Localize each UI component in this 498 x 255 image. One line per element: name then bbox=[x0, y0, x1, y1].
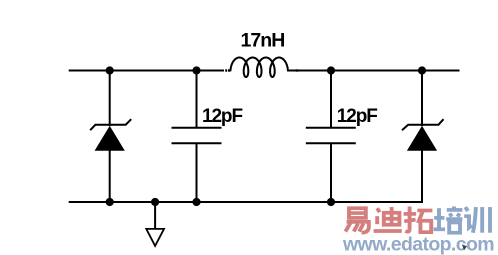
watermark char 培 bbox=[434, 207, 463, 233]
watermark char 训 bbox=[464, 207, 490, 233]
inductor L1 right pin tick bbox=[296, 69, 298, 71]
wire diode D2 upper lead bbox=[421, 71, 423, 127]
wire diode D1 upper lead bbox=[109, 71, 111, 127]
inductor L1 coil bbox=[231, 58, 288, 78]
wire cap C2 upper lead bbox=[330, 71, 332, 128]
capacitor C1 bottom plate bbox=[172, 142, 222, 144]
svg-text:www.edatop.com: www.edatop.com bbox=[342, 234, 494, 255]
inductor L1 left pin tick bbox=[225, 69, 227, 71]
capacitor C2 top plate bbox=[306, 127, 356, 129]
svg-text:12pF: 12pF bbox=[337, 106, 377, 127]
svg-text:12pF: 12pF bbox=[202, 106, 242, 127]
ground arrow symbol bbox=[146, 229, 164, 246]
node dot bottom diode D1 bbox=[106, 198, 114, 206]
capacitor C2 bottom plate bbox=[306, 142, 356, 144]
node dot top cap C2 bbox=[327, 66, 335, 74]
watermark char 迪 bbox=[374, 207, 402, 231]
node dot bottom cap C2 bbox=[327, 198, 335, 206]
node dot bottom cap C1 bbox=[192, 198, 200, 206]
wire cap C2 lower lead bbox=[330, 143, 332, 202]
diode D2 zener cathode bar bbox=[402, 119, 444, 130]
wire diode D2 lower lead bbox=[421, 150, 423, 202]
svg-text:17nH: 17nH bbox=[240, 30, 284, 52]
inductor L1 left pin tick 2 bbox=[228, 69, 230, 71]
watermark cursor arrow bbox=[462, 244, 467, 250]
wire bottom bus bbox=[69, 198, 422, 202]
diode D1 triangle bbox=[95, 126, 125, 151]
wire cap C1 lower lead bbox=[196, 143, 198, 202]
node dot top cap C1 bbox=[192, 66, 200, 74]
wire diode D1 lower lead bbox=[109, 150, 111, 202]
capacitor C1 top plate bbox=[172, 127, 222, 129]
node dot top-left (diode D1 / top bus) bbox=[106, 66, 114, 74]
watermark char 拓 bbox=[404, 207, 433, 233]
wire top bus right segment bbox=[289, 70, 460, 72]
diode D1 zener cathode bar bbox=[90, 119, 131, 130]
ground stub wire bbox=[154, 202, 156, 229]
watermark char 易 bbox=[345, 208, 368, 233]
wire cap C1 upper lead bbox=[196, 71, 198, 128]
wire top bus left segment bbox=[69, 70, 224, 72]
node dot bottom ground bbox=[151, 198, 159, 206]
diode D2 triangle bbox=[407, 126, 437, 151]
node dot top-right (diode D2 / top bus) bbox=[418, 66, 426, 74]
